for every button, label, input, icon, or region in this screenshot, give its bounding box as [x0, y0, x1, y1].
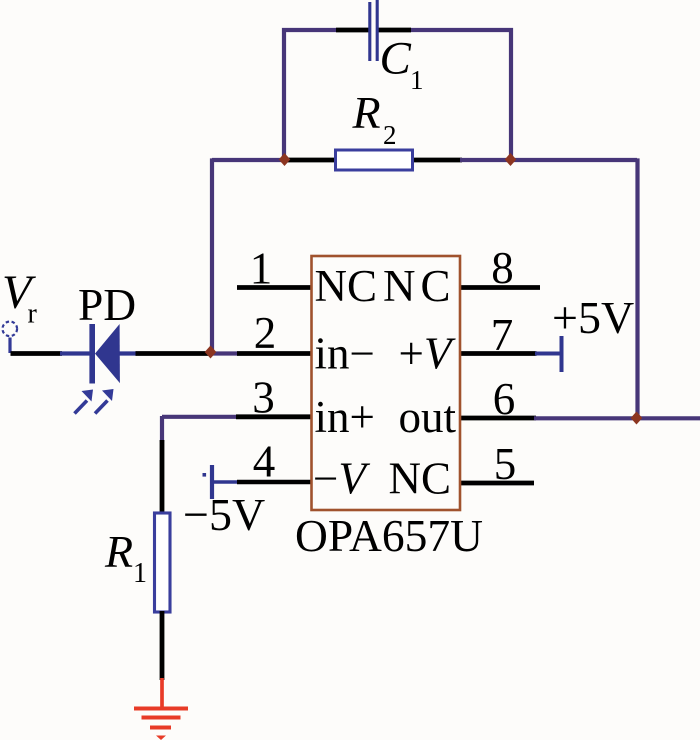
- svg-text:−5V: −5V: [183, 489, 265, 540]
- svg-text:R: R: [352, 87, 381, 138]
- svg-text:NC: NC: [389, 454, 452, 504]
- svg-text:2: 2: [383, 120, 397, 150]
- svg-text:NC: NC: [383, 261, 456, 311]
- svg-text:5: 5: [494, 439, 517, 489]
- svg-text:3: 3: [252, 373, 275, 423]
- svg-text:R: R: [104, 526, 133, 577]
- svg-text:4: 4: [253, 437, 276, 487]
- svg-text:2: 2: [254, 308, 277, 358]
- svg-text:PD: PD: [78, 279, 136, 330]
- svg-text:out: out: [399, 392, 457, 442]
- svg-text:7: 7: [491, 310, 514, 360]
- svg-text:C: C: [380, 33, 412, 85]
- svg-text:NC: NC: [315, 261, 378, 311]
- svg-text:8: 8: [491, 243, 514, 293]
- svg-text:6: 6: [493, 374, 516, 424]
- svg-text:1: 1: [133, 558, 147, 589]
- svg-text:+V: +V: [399, 329, 456, 379]
- svg-text:1: 1: [410, 65, 424, 95]
- svg-text:−V: −V: [313, 454, 370, 504]
- svg-text:in+: in+: [315, 392, 375, 442]
- svg-text:+5V: +5V: [552, 292, 634, 343]
- svg-text:1: 1: [250, 244, 273, 294]
- svg-text:r: r: [28, 299, 38, 330]
- svg-text:in−: in−: [315, 329, 375, 379]
- svg-text:OPA657U: OPA657U: [295, 510, 483, 561]
